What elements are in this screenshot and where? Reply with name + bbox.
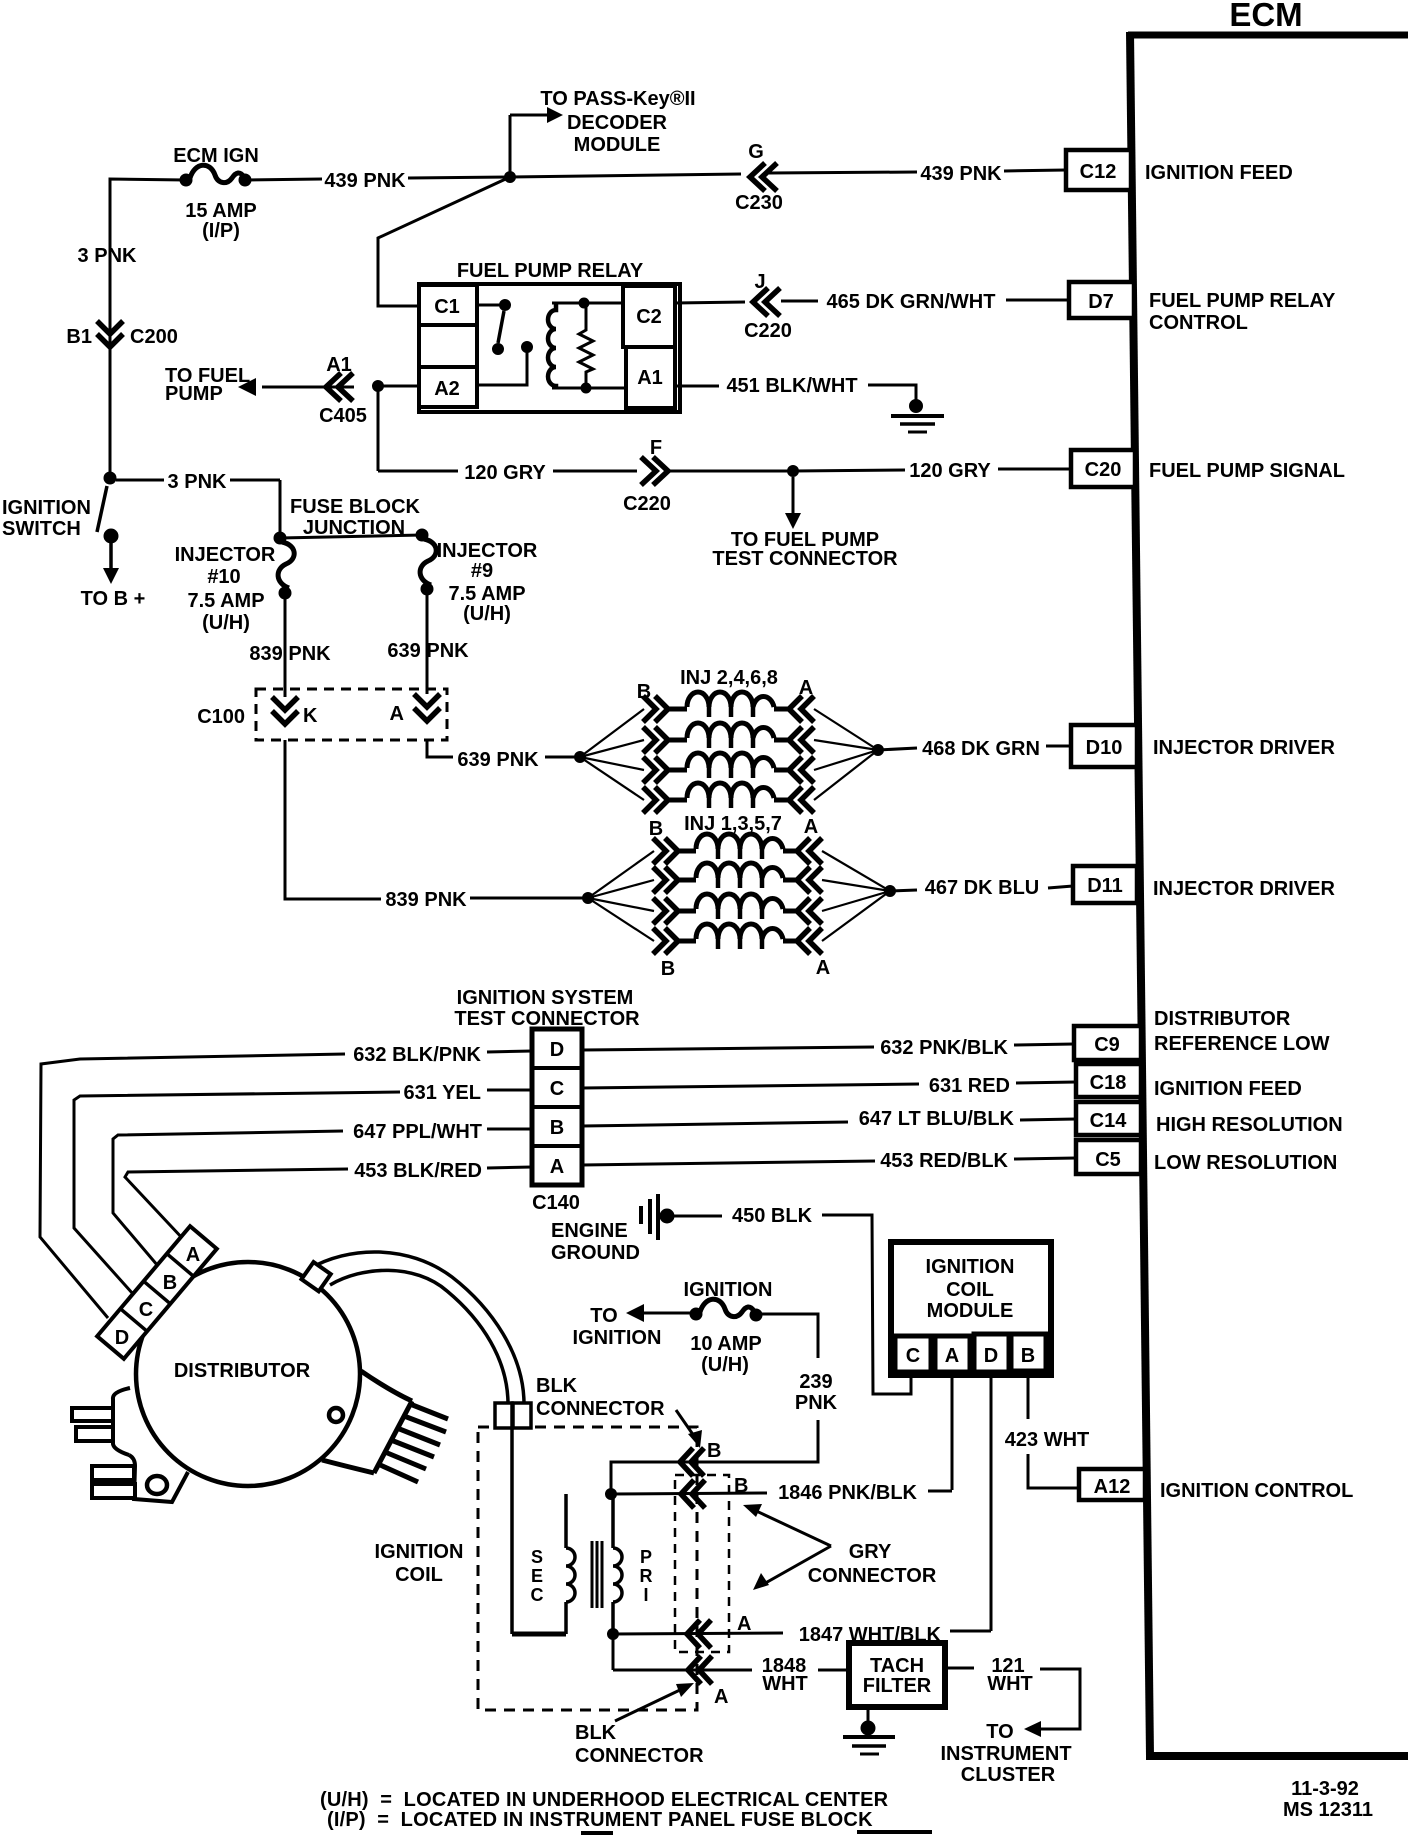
wire 647 PPL/WHT to distributor B — [113, 1129, 532, 1266]
wire 632 BLK/PNK to distributor D — [40, 1051, 532, 1318]
svg-text:15 AMP: 15 AMP — [185, 200, 257, 222]
wire to PASS-Key II decoder module — [510, 107, 563, 177]
wires fan left INJ 1,3,5,7 — [588, 851, 654, 941]
label 1848 WHT — [762, 1655, 808, 1695]
svg-text:639 PNK: 639 PNK — [457, 749, 539, 771]
relay outer box — [419, 284, 680, 412]
wires fan right INJ 2,4,6,8 — [814, 709, 878, 800]
wire 468 DK GRN to D10 — [878, 746, 1071, 750]
svg-text:INJECTOR: INJECTOR — [175, 544, 276, 566]
BLK connector boxes on coil — [495, 1403, 531, 1428]
label GRY CONNECTOR with arrows — [743, 1504, 937, 1590]
svg-text:B: B — [661, 958, 675, 980]
chevron B lower (GRY connector) — [681, 1475, 748, 1508]
svg-text:B: B — [1021, 1345, 1035, 1367]
module pin B — [1011, 1334, 1046, 1371]
svg-text:C405: C405 — [319, 405, 367, 427]
module pin C — [895, 1336, 931, 1372]
svg-text:ECM IGN: ECM IGN — [173, 145, 259, 167]
injector bank INJ 2,4,6,8 — [637, 667, 813, 703]
svg-text:ENGINE: ENGINE — [551, 1220, 628, 1242]
svg-text:CONNECTOR: CONNECTOR — [808, 1565, 937, 1587]
svg-text:(U/H): (U/H) — [202, 612, 250, 634]
svg-text:C100: C100 — [197, 706, 245, 728]
svg-text:D: D — [550, 1039, 564, 1061]
svg-text:C: C — [139, 1299, 153, 1321]
ignition coil dashed box — [478, 1427, 697, 1710]
svg-text:WHT: WHT — [762, 1673, 808, 1695]
connector C100 chevron K — [272, 697, 318, 727]
relay coil winding — [548, 303, 626, 388]
ground (451 BLK/WHT) — [891, 400, 944, 433]
distributor cap connector strip — [97, 1226, 217, 1359]
injector coil row 3 (INJ 5) — [653, 894, 822, 924]
svg-text:INJECTOR DRIVER: INJECTOR DRIVER — [1153, 737, 1335, 759]
node 639 PNK fan left — [575, 752, 586, 763]
wire 453 RED/BLK to C5 — [582, 1158, 1076, 1165]
module pin D — [974, 1334, 1009, 1372]
svg-text:451 BLK/WHT: 451 BLK/WHT — [726, 375, 857, 397]
svg-text:C5: C5 — [1095, 1149, 1121, 1171]
svg-text:E: E — [531, 1566, 543, 1586]
fuse IGNITION 10 AMP (U/H) — [626, 1279, 772, 1376]
svg-text:839 PNK: 839 PNK — [249, 643, 331, 665]
svg-text:INJECTOR: INJECTOR — [437, 540, 538, 562]
svg-text:C2: C2 — [636, 306, 662, 328]
svg-text:7.5 AMP: 7.5 AMP — [448, 583, 525, 605]
svg-text:A: A — [737, 1613, 751, 1635]
svg-text:631 YEL: 631 YEL — [404, 1082, 481, 1104]
distributor right brush connector — [322, 1371, 448, 1482]
svg-text:439 PNK: 439 PNK — [324, 170, 406, 192]
svg-text:C140: C140 — [532, 1192, 580, 1214]
wire 450 BLK to module pin C — [673, 1215, 911, 1394]
svg-text:3 PNK: 3 PNK — [78, 245, 137, 267]
wire 3 PNK vertical rail — [109, 179, 112, 478]
svg-text:465 DK GRN/WHT: 465 DK GRN/WHT — [827, 291, 996, 313]
svg-text:J: J — [754, 271, 765, 293]
svg-text:A: A — [714, 1686, 728, 1708]
label IGNITION SYSTEM TEST CONNECTOR — [454, 987, 640, 1030]
label BLK CONNECTOR (top) — [536, 1375, 702, 1448]
connector C220 chevron J — [744, 271, 792, 342]
coil primary winding PRI — [613, 1494, 653, 1634]
svg-text:11-3-92: 11-3-92 — [1291, 1778, 1359, 1800]
svg-text:TEST CONNECTOR: TEST CONNECTOR — [712, 548, 898, 570]
coil core — [592, 1541, 602, 1608]
svg-text:839 PNK: 839 PNK — [385, 889, 467, 911]
svg-text:A1: A1 — [326, 354, 352, 376]
svg-text:C18: C18 — [1090, 1072, 1127, 1094]
pin C14 — [1076, 1102, 1141, 1135]
label 121 WHT — [987, 1655, 1033, 1695]
connector C100 chevron A — [390, 694, 440, 725]
connector C140 — [532, 1029, 582, 1185]
svg-text:B: B — [163, 1272, 177, 1294]
bottom table marks — [581, 1832, 932, 1833]
svg-text:F: F — [650, 437, 662, 459]
svg-text:A: A — [390, 703, 404, 725]
wire 1848 WHT — [613, 1634, 849, 1670]
ignition coil module — [891, 1242, 1051, 1375]
svg-text:LOW RESOLUTION: LOW RESOLUTION — [1154, 1152, 1337, 1174]
wire relay A2 to fuel pump — [238, 378, 419, 396]
label TO PASS-Key II DECODER MODULE — [540, 88, 695, 156]
svg-text:TO B +: TO B + — [81, 588, 146, 610]
wire 632 PNK/BLK to C9 — [582, 1044, 1074, 1050]
svg-text:C: C — [906, 1345, 920, 1367]
svg-text:453 BLK/RED: 453 BLK/RED — [354, 1160, 482, 1182]
svg-text:GROUND: GROUND — [551, 1242, 640, 1264]
distributor body — [136, 1262, 360, 1486]
pin C12 — [1066, 150, 1131, 190]
wire 1846 PNK/BLK — [611, 1491, 952, 1494]
svg-text:IGNITION FEED: IGNITION FEED — [1154, 1078, 1302, 1100]
svg-text:#9: #9 — [471, 560, 493, 582]
svg-text:(U/H): (U/H) — [701, 1354, 749, 1376]
wire 423 WHT module pin B to A12 — [1028, 1373, 1079, 1488]
relay resistor — [579, 298, 593, 393]
injector coil row 2 (INJ 4) — [643, 723, 814, 753]
svg-text:FUEL PUMP RELAY: FUEL PUMP RELAY — [1149, 290, 1336, 312]
connector C230 chevron G — [735, 141, 783, 214]
svg-text:I: I — [643, 1585, 648, 1605]
engine ground symbol — [641, 1194, 674, 1240]
svg-text:1846 PNK/BLK: 1846 PNK/BLK — [778, 1482, 917, 1504]
wire 439 PNK from ignition to C12 — [110, 170, 1066, 298]
svg-text:IGNITION SYSTEM: IGNITION SYSTEM — [457, 987, 634, 1009]
svg-text:FUSE BLOCK: FUSE BLOCK — [290, 496, 421, 518]
svg-text:7.5 AMP: 7.5 AMP — [187, 590, 264, 612]
injector bank INJ 1,3,5,7 — [649, 813, 830, 980]
label TO FUEL PUMP — [165, 365, 250, 405]
label FUSE BLOCK JUNCTION — [290, 496, 421, 539]
pin A12 — [1079, 1469, 1145, 1500]
relay terminal C2 — [623, 286, 675, 347]
svg-text:647 PPL/WHT: 647 PPL/WHT — [353, 1121, 482, 1143]
svg-text:SWITCH: SWITCH — [2, 518, 81, 540]
svg-text:(U/H): (U/H) — [463, 603, 511, 625]
svg-text:IGNITION: IGNITION — [684, 1279, 773, 1301]
svg-text:632 BLK/PNK: 632 BLK/PNK — [353, 1044, 481, 1066]
TACH FILTER box — [849, 1643, 945, 1707]
label BLK CONNECTOR (bottom) — [575, 1683, 704, 1767]
svg-text:HIGH RESOLUTION: HIGH RESOLUTION — [1156, 1114, 1343, 1136]
svg-text:C9: C9 — [1094, 1034, 1120, 1056]
node B+ junction on 1846 line — [606, 1489, 617, 1500]
relay switch contacts — [477, 300, 533, 386]
svg-text:TO: TO — [590, 1305, 617, 1327]
svg-text:A: A — [186, 1244, 200, 1266]
svg-text:R: R — [640, 1566, 653, 1586]
svg-text:G: G — [748, 141, 764, 163]
wire 453 BLK/RED to distributor A — [125, 1167, 532, 1240]
svg-text:MODULE: MODULE — [927, 1300, 1014, 1322]
svg-text:TO PASS-Key®II: TO PASS-Key®II — [540, 88, 695, 110]
coil secondary winding SEC — [531, 1494, 576, 1634]
svg-text:239: 239 — [799, 1371, 832, 1393]
pin D7 — [1069, 282, 1134, 318]
svg-text:C: C — [550, 1078, 564, 1100]
svg-text:CONTROL: CONTROL — [1149, 312, 1248, 334]
distributor harness curve — [301, 1252, 524, 1404]
svg-text:B: B — [734, 1475, 748, 1497]
ignition switch — [97, 472, 119, 584]
label IGNITION SWITCH — [2, 497, 91, 540]
wire fuse block junction — [280, 535, 422, 538]
label 239 PNK — [795, 1371, 838, 1414]
label TO IGNITION — [573, 1305, 662, 1349]
injector coil row 1 (INJ 2) — [643, 692, 814, 722]
svg-text:B: B — [707, 1440, 721, 1462]
label TO FUEL PUMP TEST CONNECTOR — [712, 529, 898, 570]
svg-text:C220: C220 — [744, 320, 792, 342]
fuse ECM IGN 15 AMP (I/P) — [173, 145, 259, 242]
relay terminal blank — [419, 325, 477, 367]
injector coil row 1 (INJ 1) — [653, 834, 822, 864]
svg-text:D11: D11 — [1087, 875, 1123, 897]
svg-text:IGNITION: IGNITION — [573, 1327, 662, 1349]
svg-text:120 GRY: 120 GRY — [464, 462, 546, 484]
wire 647 LT BLU/BLK to C14 — [582, 1119, 1076, 1126]
svg-text:IGNITION: IGNITION — [926, 1256, 1015, 1278]
connector C220 chevron F — [623, 437, 671, 515]
pin D10 — [1071, 725, 1137, 767]
node fuel pump test connector tap — [785, 466, 801, 530]
svg-text:DISTRIBUTOR: DISTRIBUTOR — [1154, 1008, 1291, 1030]
svg-text:IGNITION: IGNITION — [375, 1541, 464, 1563]
svg-text:ECM: ECM — [1229, 0, 1302, 33]
wire 3 PNK to fuse block — [116, 480, 280, 538]
GRY connector dashed box — [675, 1475, 729, 1652]
svg-text:C12: C12 — [1080, 161, 1117, 183]
wire module pin A to 1846 — [951, 1373, 954, 1490]
svg-text:D: D — [115, 1327, 129, 1349]
svg-text:(U/H) = LOCATED IN UNDERHOOD: (U/H) = LOCATED IN UNDERHOOD ELECTRICAL … — [320, 1789, 889, 1811]
injector coil row 4 (INJ 7) — [653, 924, 822, 954]
relay terminal C1 — [419, 285, 477, 325]
svg-text:INSTRUMENT: INSTRUMENT — [940, 1743, 1071, 1765]
svg-text:(I/P): (I/P) — [202, 220, 240, 242]
fuse INJECTOR #9 7.5 AMP (U/H) — [416, 529, 538, 625]
svg-text:C20: C20 — [1085, 459, 1122, 481]
svg-text:INJECTOR DRIVER: INJECTOR DRIVER — [1153, 878, 1335, 900]
svg-text:B1: B1 — [66, 326, 92, 348]
distributor left connector lower — [92, 1455, 188, 1502]
node PRI bottom junction — [608, 1629, 619, 1640]
pin C9 — [1074, 1026, 1141, 1060]
svg-text:MS 12311: MS 12311 — [1283, 1799, 1373, 1821]
label IGNITION COIL — [375, 1541, 464, 1586]
distributor left connector upper — [72, 1388, 130, 1455]
svg-text:TACH: TACH — [870, 1655, 924, 1677]
svg-text:IGNITION: IGNITION — [2, 497, 91, 519]
fuse INJECTOR #10 7.5 AMP (U/H) — [175, 532, 295, 634]
svg-text:TO: TO — [986, 1721, 1013, 1743]
connector C405 chevron A1 — [319, 354, 367, 427]
wire module pin D to 1847 — [990, 1373, 993, 1631]
svg-text:INJ 1,3,5,7: INJ 1,3,5,7 — [684, 813, 782, 835]
svg-text:(I/P) = LOCATED IN INSTRUMEN: (I/P) = LOCATED IN INSTRUMENT PANEL FUSE… — [327, 1809, 873, 1831]
wire 631 YEL to distributor C — [74, 1090, 532, 1294]
chevron B upper (BLK connector) — [680, 1440, 721, 1476]
svg-text:GRY: GRY — [849, 1541, 892, 1563]
svg-text:D: D — [984, 1345, 998, 1367]
label TO INSTRUMENT CLUSTER — [940, 1721, 1071, 1786]
svg-text:DISTRIBUTOR: DISTRIBUTOR — [174, 1360, 311, 1382]
svg-text:120 GRY: 120 GRY — [909, 460, 991, 482]
svg-text:CONNECTOR: CONNECTOR — [575, 1745, 704, 1767]
svg-text:3 PNK: 3 PNK — [168, 471, 227, 493]
injector coil row 3 (INJ 6) — [643, 753, 814, 783]
ground (tach filter) — [843, 1707, 895, 1754]
pin D11 — [1073, 866, 1137, 903]
wires fan right INJ 1,3,5,7 — [822, 851, 890, 941]
node 839 PNK fan left — [583, 893, 594, 904]
svg-text:PUMP: PUMP — [165, 383, 223, 405]
pin C5 — [1076, 1140, 1141, 1174]
svg-text:647 LT BLU/BLK: 647 LT BLU/BLK — [859, 1108, 1015, 1130]
wire 120 GRY to C20 — [378, 386, 1071, 471]
wire 839 PNK into C100 — [284, 599, 287, 697]
svg-text:B: B — [550, 1117, 564, 1139]
svg-text:450 BLK: 450 BLK — [732, 1205, 813, 1227]
svg-text:FILTER: FILTER — [863, 1675, 932, 1697]
svg-text:A: A — [804, 816, 818, 838]
label FUEL PUMP RELAY CONTROL (D7) — [1149, 290, 1336, 334]
connector C100 dashed box — [256, 689, 447, 740]
wire SEC return to BLK connector — [512, 1428, 566, 1634]
svg-text:D7: D7 — [1088, 291, 1114, 313]
svg-text:DECODER: DECODER — [567, 112, 668, 134]
pin C18 — [1076, 1064, 1141, 1097]
svg-text:A2: A2 — [434, 378, 460, 400]
svg-text:FUEL PUMP SIGNAL: FUEL PUMP SIGNAL — [1149, 460, 1345, 482]
distributor bolt hole — [329, 1408, 343, 1422]
svg-text:A1: A1 — [637, 367, 663, 389]
wire 467 DK BLU to D11 — [890, 886, 1073, 891]
svg-text:P: P — [640, 1547, 652, 1567]
wire 839 PNK lower run — [285, 740, 588, 899]
svg-text:439 PNK: 439 PNK — [920, 163, 1002, 185]
svg-text:COIL: COIL — [395, 1564, 443, 1586]
svg-text:S: S — [531, 1547, 543, 1567]
svg-text:D10: D10 — [1086, 737, 1123, 759]
ECM module outline — [1128, 0, 1408, 1756]
wire 639 PNK lower run — [427, 740, 580, 757]
svg-text:C1: C1 — [434, 296, 460, 318]
wire 631 RED to C18 — [582, 1082, 1076, 1088]
injector coil row 4 (INJ 8) — [643, 783, 814, 813]
svg-text:PNK: PNK — [795, 1392, 838, 1414]
wire 239 PNK — [611, 1314, 818, 1494]
wire feed to relay C1 — [378, 177, 510, 306]
svg-text:A: A — [816, 957, 830, 979]
svg-text:C200: C200 — [130, 326, 178, 348]
svg-text:C230: C230 — [735, 192, 783, 214]
svg-text:A: A — [945, 1345, 959, 1367]
svg-text:MODULE: MODULE — [574, 134, 661, 156]
wire 639 PNK into C100 — [426, 595, 429, 694]
wire relay A1 451 BLK/WHT to ground — [675, 385, 916, 400]
svg-text:#10: #10 — [207, 566, 240, 588]
node junction 439 PNK — [505, 172, 516, 183]
svg-text:BLK: BLK — [575, 1722, 617, 1744]
svg-text:REFERENCE LOW: REFERENCE LOW — [1154, 1033, 1330, 1055]
svg-text:COIL: COIL — [946, 1279, 994, 1301]
connector C200 chevron B1 — [66, 321, 177, 348]
relay terminal A1 — [626, 347, 675, 408]
node 468 DK GRN — [873, 745, 884, 756]
svg-text:631 RED: 631 RED — [929, 1075, 1010, 1097]
label DISTRIBUTOR REFERENCE LOW (C9) — [1154, 1008, 1330, 1055]
svg-text:FUEL PUMP RELAY: FUEL PUMP RELAY — [457, 260, 644, 282]
pin C20 — [1071, 450, 1135, 487]
svg-text:467 DK BLU: 467 DK BLU — [925, 877, 1039, 899]
svg-text:INJ 2,4,6,8: INJ 2,4,6,8 — [680, 667, 778, 689]
wire relay C2 to D7 — [675, 300, 1069, 303]
svg-text:CONNECTOR: CONNECTOR — [536, 1398, 665, 1420]
wire 121 WHT to instrument cluster — [945, 1668, 1080, 1737]
svg-text:WHT: WHT — [987, 1673, 1033, 1695]
svg-text:C220: C220 — [623, 493, 671, 515]
svg-text:IGNITION FEED: IGNITION FEED — [1145, 162, 1293, 184]
svg-text:IGNITION CONTROL: IGNITION CONTROL — [1160, 1480, 1353, 1502]
svg-text:BLK: BLK — [536, 1375, 578, 1397]
chevron A (BLK connector) — [688, 1656, 728, 1708]
svg-text:C14: C14 — [1090, 1110, 1128, 1132]
svg-text:CLUSTER: CLUSTER — [961, 1764, 1056, 1786]
svg-text:B: B — [649, 818, 663, 840]
relay terminal A2 — [419, 367, 477, 407]
svg-text:A12: A12 — [1094, 1476, 1131, 1498]
injector coil row 2 (INJ 3) — [653, 863, 822, 893]
module pin A — [935, 1336, 970, 1372]
svg-text:A: A — [550, 1156, 564, 1178]
wires fan left INJ 2,4,6,8 — [580, 709, 644, 800]
wire 1847 WHT/BLK — [613, 1631, 991, 1634]
svg-text:468 DK GRN: 468 DK GRN — [922, 738, 1040, 760]
chevron A (GRY connector) — [687, 1613, 751, 1648]
svg-text:C: C — [531, 1585, 544, 1605]
label ENGINE GROUND — [551, 1220, 640, 1264]
svg-text:10 AMP: 10 AMP — [690, 1333, 762, 1355]
svg-text:453 RED/BLK: 453 RED/BLK — [880, 1150, 1008, 1172]
svg-text:423 WHT: 423 WHT — [1005, 1429, 1089, 1451]
svg-text:K: K — [303, 705, 318, 727]
svg-text:632 PNK/BLK: 632 PNK/BLK — [880, 1037, 1008, 1059]
node 467 DK BLU — [885, 886, 896, 897]
